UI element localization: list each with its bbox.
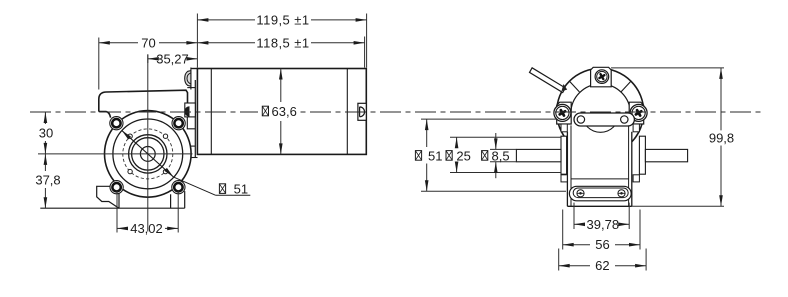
side tab left <box>557 102 572 124</box>
side screw left <box>554 104 571 121</box>
bottom cover plate <box>569 186 631 201</box>
motor outer circle <box>557 68 644 155</box>
svg-text:99,8: 99,8 <box>709 130 734 145</box>
dimension d63,6 <box>258 69 298 155</box>
dome-circle connector left <box>569 81 579 92</box>
gearbox body walls <box>567 132 631 207</box>
svg-text:30: 30 <box>39 126 53 141</box>
step block right lower <box>633 175 639 182</box>
svg-text:35,27: 35,27 <box>156 51 189 66</box>
svg-text:118,5 ±1: 118,5 ±1 <box>256 35 309 50</box>
dimension 118,5 ±1 <box>197 35 364 67</box>
strap hole left <box>577 116 584 123</box>
dimension 39,78 <box>574 203 629 232</box>
dimension 30 <box>39 112 53 154</box>
bearing strap <box>574 113 634 126</box>
hub outer ring <box>129 135 167 173</box>
dimension d25 right view <box>446 137 561 172</box>
svg-text:51: 51 <box>428 148 442 163</box>
inner wall right <box>628 125 630 206</box>
side screw right <box>630 104 647 121</box>
tapped hole bottom-right <box>163 169 167 173</box>
corner screw boss bottom-left <box>110 181 123 194</box>
motor screw boss on axis <box>184 103 195 117</box>
svg-text:39,78: 39,78 <box>587 217 620 232</box>
svg-text:119,5 ±1: 119,5 ±1 <box>256 12 309 27</box>
label d51 left view <box>122 130 251 196</box>
dimension d51 right view <box>415 119 566 191</box>
output shaft left <box>516 149 561 161</box>
flange boss circle (d51) <box>113 119 183 189</box>
shaft flange left <box>561 136 567 174</box>
mounting surface line <box>40 207 184 209</box>
bolt circle (dashed) <box>123 129 173 179</box>
svg-text:25: 25 <box>456 148 470 163</box>
step below screw boss <box>187 117 195 129</box>
dimension 56 <box>563 210 640 253</box>
left mounting bracket <box>97 186 119 208</box>
motor rear bearing boss <box>358 103 366 120</box>
svg-text:51: 51 <box>234 181 248 196</box>
svg-text:37,8: 37,8 <box>35 173 60 188</box>
top screw tab <box>591 67 612 87</box>
side tab right <box>629 102 644 124</box>
inner wall left <box>570 125 572 206</box>
svg-text:70: 70 <box>141 35 155 50</box>
motor body <box>197 69 366 155</box>
strap hole right <box>621 116 628 123</box>
tapped hole bottom-left <box>128 169 132 173</box>
motor adapter plate <box>194 80 196 158</box>
output bore <box>140 147 155 162</box>
motor front seam <box>210 69 212 155</box>
dimension d8,5 right view <box>482 133 517 178</box>
motor end-cap seam <box>346 69 348 155</box>
step block right upper <box>633 124 639 132</box>
corner screw boss bottom-right <box>172 181 185 194</box>
output shaft right <box>645 149 687 161</box>
flange vertical centerline <box>147 54 149 231</box>
motor axis centerline <box>30 111 765 113</box>
svg-text:43,02: 43,02 <box>130 221 163 236</box>
corner screw boss top-right <box>172 117 185 130</box>
tapped hole top-left <box>128 134 132 138</box>
dimension 99,8 <box>611 68 734 206</box>
dimension 70 <box>99 35 198 89</box>
step block left lower <box>561 175 567 182</box>
right mounting foot <box>171 191 185 208</box>
adapter top step <box>187 87 195 89</box>
dimension 37,8 <box>35 154 60 208</box>
body step line <box>571 178 629 180</box>
front bell grommet bump <box>185 68 198 90</box>
top screw <box>595 70 609 84</box>
svg-text:8,5: 8,5 <box>492 148 510 163</box>
dome-circle connector right <box>621 81 631 92</box>
hub inner ring <box>132 138 164 170</box>
tapped hole top-right <box>163 134 167 138</box>
flange horizontal centerline <box>38 153 193 155</box>
svg-text:63,6: 63,6 <box>272 104 297 119</box>
lower tab <box>187 146 198 157</box>
dimension 35,27 <box>148 51 198 66</box>
dimension 119,5 ±1 <box>197 12 366 67</box>
gearbox housing outline <box>99 90 188 117</box>
dimension 62 <box>559 249 646 274</box>
cable terminal <box>530 68 568 93</box>
corner screw boss top-left <box>110 117 123 130</box>
dome arc <box>571 84 631 114</box>
worm bore lower arc <box>582 114 619 133</box>
step block left upper <box>561 124 567 132</box>
plate screw left <box>577 190 584 197</box>
svg-text:62: 62 <box>595 258 609 273</box>
svg-text:56: 56 <box>595 237 609 252</box>
flange outer circle <box>105 111 192 198</box>
dimension 43,02 <box>117 191 178 236</box>
shaft flange right <box>639 136 645 174</box>
plate screw right <box>618 190 625 197</box>
